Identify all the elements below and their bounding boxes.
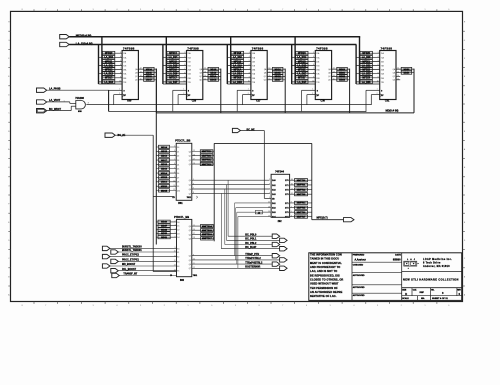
svg-text:4: 4 bbox=[313, 56, 314, 58]
svg-text:8: 8 bbox=[259, 305, 260, 307]
svg-text:1: 1 bbox=[248, 89, 249, 91]
svg-text:74F398: 74F398 bbox=[252, 46, 264, 50]
svg-text:MMF7D14: MMF7D14 bbox=[202, 225, 213, 228]
svg-text:BC_PBL1: BC_PBL1 bbox=[245, 238, 257, 241]
svg-text:MD26: MD26 bbox=[161, 222, 168, 224]
svg-text:4: 4 bbox=[184, 56, 185, 58]
svg-text:TTRxPCTRL2: TTRxPCTRL2 bbox=[245, 257, 261, 260]
svg-text:MD1C: MD1C bbox=[275, 69, 282, 71]
svg-text:D6: D6 bbox=[177, 173, 179, 175]
svg-text:7: 7 bbox=[184, 68, 185, 70]
svg-text:74AS08: 74AS08 bbox=[75, 97, 84, 100]
svg-text:LA_D16: LA_D16 bbox=[169, 73, 178, 76]
svg-text:5: 5 bbox=[93, 9, 94, 11]
svg-text:8 Tech Drive: 8 Tech Drive bbox=[423, 262, 441, 265]
svg-text:74F244: 74F244 bbox=[275, 170, 284, 174]
svg-text:MMF7D10: MMF7D10 bbox=[202, 151, 213, 153]
svg-text:REF: REF bbox=[420, 292, 425, 294]
svg-text:14: 14 bbox=[397, 75, 399, 77]
svg-text:8: 8 bbox=[22, 9, 23, 11]
svg-text:MD51: MD51 bbox=[404, 72, 411, 74]
svg-text:292: 292 bbox=[278, 220, 283, 223]
svg-text:4: 4 bbox=[120, 56, 121, 58]
svg-text:E2: E2 bbox=[177, 257, 179, 259]
svg-text:6: 6 bbox=[306, 305, 307, 307]
svg-text:MFD1E: MFD1E bbox=[298, 69, 306, 71]
svg-text:7: 7 bbox=[378, 68, 379, 70]
svg-text:1: 1 bbox=[188, 9, 189, 11]
svg-text:D4: D4 bbox=[177, 237, 179, 239]
svg-text:2: 2 bbox=[401, 9, 402, 11]
svg-text:MMF7D4: MMF7D4 bbox=[297, 202, 306, 205]
svg-text:AND PROPRIETARY TO: AND PROPRIETARY TO bbox=[310, 265, 340, 269]
svg-text:6: 6 bbox=[69, 305, 70, 307]
svg-text:4: 4 bbox=[269, 184, 270, 186]
svg-text:D1: D1 bbox=[177, 151, 179, 153]
svg-text:MD19: MD19 bbox=[161, 169, 168, 171]
svg-text:MD15: MD15 bbox=[146, 72, 153, 74]
svg-text:16: 16 bbox=[193, 229, 195, 231]
svg-text:14: 14 bbox=[333, 75, 335, 77]
svg-text:5: 5 bbox=[249, 60, 250, 62]
svg-text:10: 10 bbox=[173, 181, 175, 183]
svg-text:MMF7D16: MMF7D16 bbox=[202, 234, 213, 236]
svg-text:3: 3 bbox=[88, 102, 89, 104]
svg-text:7: 7 bbox=[282, 305, 283, 307]
svg-text:Q0: Q0 bbox=[189, 226, 191, 228]
svg-text:10: 10 bbox=[184, 81, 186, 83]
svg-text:BURSTL_TADD01: BURSTL_TADD01 bbox=[122, 249, 142, 252]
svg-text:5: 5 bbox=[174, 159, 175, 161]
svg-text:MFD1A: MFD1A bbox=[233, 68, 241, 71]
svg-text:4: 4 bbox=[174, 154, 175, 156]
svg-text:E3: E3 bbox=[177, 261, 179, 263]
svg-text:11: 11 bbox=[193, 263, 195, 265]
svg-text:BC_2E: BC_2E bbox=[118, 134, 126, 137]
svg-text:8: 8 bbox=[184, 72, 185, 74]
svg-text:9: 9 bbox=[193, 254, 194, 256]
svg-text:4: 4 bbox=[378, 56, 379, 58]
svg-text:5: 5 bbox=[193, 179, 194, 181]
svg-text:APPROVED: APPROVED bbox=[353, 286, 365, 289]
svg-text:13: 13 bbox=[204, 71, 206, 73]
svg-text:2: 2 bbox=[174, 146, 175, 148]
svg-text:5: 5 bbox=[93, 305, 94, 307]
svg-text:8: 8 bbox=[120, 72, 121, 74]
svg-text:10: 10 bbox=[193, 259, 195, 261]
svg-text:D4: D4 bbox=[177, 164, 179, 166]
svg-text:BC_BL0P: BC_BL0P bbox=[245, 246, 256, 249]
svg-text:12: 12 bbox=[173, 189, 175, 191]
svg-text:4: 4 bbox=[353, 9, 354, 11]
svg-text:3: 3 bbox=[184, 52, 185, 54]
svg-text:BC_PBL2: BC_PBL2 bbox=[245, 242, 257, 245]
svg-text:MD19: MD19 bbox=[210, 72, 217, 74]
svg-text:3: 3 bbox=[249, 52, 250, 54]
svg-text:0: 0 bbox=[448, 9, 449, 11]
svg-text:MD1E: MD1E bbox=[161, 190, 168, 192]
svg-text:NEW STLI HARDWARE COLLECTION: NEW STLI HARDWARE COLLECTION bbox=[403, 278, 459, 282]
svg-text:LA_D19: LA_D19 bbox=[233, 64, 242, 67]
svg-text:N/A: N/A bbox=[421, 297, 425, 300]
svg-text:Q7: Q7 bbox=[189, 268, 191, 270]
svg-text:Q7: Q7 bbox=[189, 193, 191, 195]
svg-text:12: 12 bbox=[397, 68, 399, 70]
svg-text:MFD19: MFD19 bbox=[234, 61, 242, 63]
svg-text:Q6: Q6 bbox=[189, 264, 191, 266]
svg-text:MENT IS CONFIDENTIAL: MENT IS CONFIDENTIAL bbox=[310, 261, 342, 265]
svg-text:18: 18 bbox=[193, 163, 195, 165]
svg-text:7: 7 bbox=[45, 305, 46, 307]
svg-text:11: 11 bbox=[174, 185, 176, 187]
svg-text:LDAP Medicine Inc.: LDAP Medicine Inc. bbox=[423, 258, 452, 261]
svg-text:MFD22: MFD22 bbox=[362, 69, 370, 71]
svg-text:5: 5 bbox=[378, 60, 379, 62]
svg-text:MFD1F: MFD1F bbox=[298, 78, 306, 80]
svg-text:2: 2 bbox=[183, 93, 184, 95]
svg-text:3: 3 bbox=[378, 52, 379, 54]
svg-text:LA_D13: LA_D13 bbox=[104, 81, 113, 84]
svg-text:6: 6 bbox=[313, 64, 314, 66]
svg-text:TRANSF_NT: TRANSF_NT bbox=[123, 273, 137, 276]
svg-text:8: 8 bbox=[259, 9, 260, 11]
svg-text:14: 14 bbox=[174, 269, 176, 271]
svg-text:MFD23: MFD23 bbox=[362, 78, 370, 80]
svg-text:9: 9 bbox=[249, 76, 250, 78]
svg-text:LA_D1B: LA_D1B bbox=[233, 81, 242, 84]
svg-text:16: 16 bbox=[193, 154, 195, 156]
svg-text:74F398: 74F398 bbox=[187, 46, 199, 50]
svg-text:2: 2 bbox=[164, 9, 165, 11]
svg-text:3: 3 bbox=[140, 305, 141, 307]
svg-text:MMF7D17: MMF7D17 bbox=[202, 238, 213, 240]
svg-text:6: 6 bbox=[378, 64, 379, 66]
svg-text:7: 7 bbox=[193, 188, 194, 190]
svg-text:Q1: Q1 bbox=[189, 230, 191, 232]
svg-text:MD18: MD18 bbox=[161, 164, 168, 166]
svg-text:10: 10 bbox=[119, 81, 121, 83]
svg-text:15: 15 bbox=[204, 78, 206, 80]
svg-text:MMF7D13: MMF7D13 bbox=[202, 164, 213, 166]
svg-text:LA_D12: LA_D12 bbox=[104, 73, 113, 76]
svg-text:MD1B: MD1B bbox=[210, 80, 217, 82]
svg-text:D1: D1 bbox=[177, 226, 179, 228]
svg-text:3: 3 bbox=[175, 224, 176, 226]
svg-text:TTRxP_PTR: TTRxP_PTR bbox=[245, 253, 259, 256]
svg-text:LA_D23: LA_D23 bbox=[362, 81, 371, 84]
svg-text:13: 13 bbox=[140, 71, 142, 73]
svg-text:MFD(0:7): MFD(0:7) bbox=[317, 215, 328, 219]
svg-text:8/30/90: 8/30/90 bbox=[393, 260, 401, 262]
svg-text:L A J: L A J bbox=[407, 258, 416, 261]
svg-text:6: 6 bbox=[184, 64, 185, 66]
svg-text:SCALE: SCALE bbox=[402, 297, 409, 300]
svg-text:MFD15: MFD15 bbox=[169, 61, 177, 63]
svg-text:10: 10 bbox=[248, 81, 250, 83]
svg-text:12: 12 bbox=[204, 68, 206, 70]
svg-text:MFD16: MFD16 bbox=[169, 69, 177, 71]
svg-text:4: 4 bbox=[116, 305, 117, 307]
svg-text:TTRxPHSTRL2: TTRxPHSTRL2 bbox=[245, 261, 263, 264]
svg-text:5: 5 bbox=[313, 60, 314, 62]
svg-text:LA_D14: LA_D14 bbox=[169, 56, 178, 59]
svg-text:7B11: 7B11 bbox=[187, 197, 191, 199]
svg-text:Q3: Q3 bbox=[189, 164, 191, 166]
svg-text:TAINED IN THIS DOCU: TAINED IN THIS DOCU bbox=[310, 257, 339, 261]
svg-text:MMF7D11: MMF7D11 bbox=[202, 155, 212, 157]
svg-text:2: 2 bbox=[269, 179, 270, 181]
svg-text:12: 12 bbox=[193, 267, 195, 269]
svg-text:Q2: Q2 bbox=[189, 234, 191, 236]
svg-text:SENTATIVE OF LAC.: SENTATIVE OF LAC. bbox=[310, 294, 337, 298]
svg-text:Q5: Q5 bbox=[189, 185, 191, 187]
svg-text:MD28: MD28 bbox=[161, 229, 168, 231]
svg-text:LA_D1C: LA_D1C bbox=[297, 56, 306, 59]
svg-text:THE INFORMATION CON: THE INFORMATION CON bbox=[310, 252, 342, 256]
svg-text:MD1A: MD1A bbox=[210, 75, 217, 78]
svg-text:15: 15 bbox=[193, 225, 195, 227]
svg-text:15: 15 bbox=[333, 78, 335, 80]
svg-text:6: 6 bbox=[120, 64, 121, 66]
svg-text:CLOSED TO OTHERS, OR: CLOSED TO OTHERS, OR bbox=[310, 277, 343, 281]
svg-text:5: 5 bbox=[330, 9, 331, 11]
svg-text:74F398: 74F398 bbox=[316, 46, 328, 50]
svg-text:12: 12 bbox=[269, 68, 271, 70]
svg-text:E5: E5 bbox=[177, 271, 179, 273]
svg-text:Q4: Q4 bbox=[189, 180, 191, 182]
svg-text:MFD1D: MFD1D bbox=[298, 61, 306, 63]
svg-text:MD14: MD14 bbox=[146, 68, 153, 71]
svg-text:MD1B: MD1B bbox=[161, 177, 168, 179]
svg-text:C26: C26 bbox=[192, 100, 197, 103]
svg-text:8: 8 bbox=[174, 172, 175, 174]
svg-text:0: 0 bbox=[211, 305, 212, 307]
svg-text:9: 9 bbox=[120, 76, 121, 78]
svg-text:MFD21: MFD21 bbox=[362, 61, 370, 63]
svg-text:D2: D2 bbox=[177, 230, 179, 232]
svg-text:MFD10: MFD10 bbox=[105, 53, 113, 55]
svg-text:15: 15 bbox=[193, 150, 195, 152]
svg-text:D5: D5 bbox=[177, 169, 179, 171]
svg-text:13: 13 bbox=[397, 71, 399, 73]
svg-text:MMF7D2: MMF7D2 bbox=[297, 189, 306, 191]
svg-text:8: 8 bbox=[22, 305, 23, 307]
svg-text:NO.: NO. bbox=[431, 289, 435, 291]
svg-text:MMF7D5: MMF7D5 bbox=[297, 208, 306, 210]
svg-text:ROSTERN0R: ROSTERN0R bbox=[245, 266, 260, 269]
svg-text:MFD13: MFD13 bbox=[105, 78, 113, 80]
svg-text:Q6: Q6 bbox=[189, 189, 191, 191]
svg-text:MFD1C: MFD1C bbox=[298, 53, 306, 55]
svg-text:2: 2 bbox=[377, 93, 378, 95]
svg-text:MD1D: MD1D bbox=[161, 186, 168, 188]
svg-text:MD31: MD31 bbox=[161, 237, 168, 239]
svg-text:2: 2 bbox=[119, 93, 120, 95]
svg-text:1: 1 bbox=[119, 89, 120, 91]
svg-text:7: 7 bbox=[120, 68, 121, 70]
svg-text:2: 2 bbox=[164, 305, 165, 307]
svg-text:2: 2 bbox=[312, 93, 313, 95]
svg-text:6: 6 bbox=[306, 9, 307, 11]
svg-text:MD1C: MD1C bbox=[161, 182, 168, 184]
svg-text:74F398: 74F398 bbox=[123, 46, 135, 50]
svg-text:4: 4 bbox=[249, 56, 250, 58]
svg-text:3: 3 bbox=[120, 52, 121, 54]
svg-text:MD17: MD17 bbox=[146, 80, 153, 82]
svg-text:11: 11 bbox=[174, 255, 176, 257]
svg-text:10: 10 bbox=[174, 251, 176, 253]
svg-text:6: 6 bbox=[249, 64, 250, 66]
svg-text:MMF7D3: MMF7D3 bbox=[297, 194, 306, 196]
svg-text:LA_D22: LA_D22 bbox=[362, 73, 371, 76]
svg-text:MFD17: MFD17 bbox=[169, 78, 177, 80]
svg-text:8: 8 bbox=[378, 72, 379, 74]
svg-text:13: 13 bbox=[333, 71, 335, 73]
svg-text:MD18: MD18 bbox=[210, 69, 217, 71]
svg-text:E1: E1 bbox=[177, 252, 179, 254]
svg-text:LA_D17: LA_D17 bbox=[169, 81, 178, 84]
svg-text:0: 0 bbox=[211, 9, 212, 11]
svg-text:7: 7 bbox=[313, 68, 314, 70]
svg-text:BURSTL_TADD03: BURSTL_TADD03 bbox=[122, 246, 142, 249]
svg-text:7: 7 bbox=[45, 9, 46, 11]
svg-text:BC_PBL0: BC_PBL0 bbox=[245, 234, 257, 237]
svg-text:Andover, MA 01810: Andover, MA 01810 bbox=[423, 265, 450, 268]
svg-text:8: 8 bbox=[313, 72, 314, 74]
svg-text:14: 14 bbox=[140, 75, 142, 77]
svg-text:MFD1B: MFD1B bbox=[233, 78, 241, 80]
svg-text:MMF7D7: MMF7D7 bbox=[297, 216, 306, 218]
svg-text:MD16: MD16 bbox=[161, 155, 168, 157]
svg-text:5: 5 bbox=[330, 305, 331, 307]
svg-text:MD30: MD30 bbox=[161, 233, 168, 235]
svg-text:LA_D18: LA_D18 bbox=[233, 56, 242, 59]
svg-text:18: 18 bbox=[193, 237, 195, 239]
svg-text:C27: C27 bbox=[256, 100, 261, 103]
svg-text:15: 15 bbox=[397, 78, 399, 80]
svg-text:Q0: Q0 bbox=[189, 151, 191, 153]
svg-text:P7DC7L_BB: P7DC7L_BB bbox=[175, 139, 190, 143]
svg-text:APPROVED: APPROVED bbox=[353, 294, 365, 297]
svg-text:LA_D20: LA_D20 bbox=[362, 56, 371, 59]
svg-text:2: 2 bbox=[401, 305, 402, 307]
svg-text:9: 9 bbox=[235, 305, 236, 307]
svg-text:3: 3 bbox=[174, 150, 175, 152]
svg-text:MMF7D12: MMF7D12 bbox=[202, 160, 213, 162]
svg-text:LA_D1F: LA_D1F bbox=[297, 81, 306, 84]
svg-text:14: 14 bbox=[269, 75, 271, 77]
svg-text:4: 4 bbox=[116, 9, 117, 11]
svg-text:MFD11: MFD11 bbox=[105, 61, 113, 63]
svg-text:8: 8 bbox=[249, 72, 250, 74]
svg-text:Q3: Q3 bbox=[189, 238, 191, 240]
svg-text:9: 9 bbox=[175, 247, 176, 249]
svg-text:1: 1 bbox=[312, 89, 313, 91]
svg-text:1: 1 bbox=[425, 9, 426, 11]
svg-text:MD23: MD23 bbox=[339, 80, 346, 82]
svg-text:17: 17 bbox=[193, 159, 195, 161]
svg-text:8: 8 bbox=[269, 193, 270, 195]
svg-text:MD15: MD15 bbox=[161, 151, 168, 153]
svg-text:E0: E0 bbox=[177, 248, 179, 250]
svg-text:LAC, AND IS NOT TO: LAC, AND IS NOT TO bbox=[310, 269, 337, 273]
svg-text:12: 12 bbox=[333, 68, 335, 70]
svg-text:Q5: Q5 bbox=[189, 260, 191, 262]
svg-text:10: 10 bbox=[312, 81, 314, 83]
svg-text:10: 10 bbox=[377, 81, 379, 83]
svg-text:B81: B81 bbox=[178, 202, 183, 205]
svg-text:6: 6 bbox=[175, 236, 176, 238]
svg-text:PAL_BOOST: PAL_BOOST bbox=[122, 268, 137, 271]
svg-text:9: 9 bbox=[184, 76, 185, 78]
svg-text:Q4: Q4 bbox=[189, 256, 191, 258]
svg-text:9: 9 bbox=[235, 9, 236, 11]
svg-text:3: 3 bbox=[377, 305, 378, 307]
svg-text:MFD14: MFD14 bbox=[169, 52, 177, 55]
svg-text:830: 830 bbox=[127, 100, 132, 103]
svg-text:MMF7D6: MMF7D6 bbox=[297, 212, 306, 214]
svg-text:1: 1 bbox=[269, 197, 270, 199]
svg-text:MD21: MD21 bbox=[339, 72, 346, 74]
svg-text:LA_D15: LA_D15 bbox=[169, 64, 178, 67]
svg-text:6: 6 bbox=[174, 163, 175, 165]
svg-text:D2: D2 bbox=[177, 156, 179, 158]
svg-text:LA_D11: LA_D11 bbox=[104, 64, 113, 67]
svg-text:TEN PERMISSION OF: TEN PERMISSION OF bbox=[310, 286, 338, 290]
svg-text:4: 4 bbox=[175, 228, 176, 230]
svg-text:D9: D9 bbox=[177, 186, 179, 188]
svg-text:5: 5 bbox=[184, 60, 185, 62]
svg-text:PREPARED: PREPARED bbox=[353, 254, 365, 257]
svg-text:MD50: MD50 bbox=[404, 69, 411, 71]
svg-text:Q1: Q1 bbox=[189, 156, 191, 158]
svg-text:6: 6 bbox=[269, 188, 270, 190]
svg-text:15: 15 bbox=[269, 78, 271, 80]
svg-text:D: D bbox=[405, 292, 407, 296]
svg-text:7B11: 7B11 bbox=[193, 275, 197, 277]
svg-text:MD17: MD17 bbox=[161, 160, 168, 162]
svg-text:14: 14 bbox=[204, 75, 206, 77]
svg-text:D8: D8 bbox=[177, 182, 179, 184]
svg-text:0: 0 bbox=[448, 305, 449, 307]
svg-text:7: 7 bbox=[174, 167, 175, 169]
svg-text:6: 6 bbox=[193, 183, 194, 185]
svg-text:2: 2 bbox=[248, 93, 249, 95]
svg-text:8: 8 bbox=[193, 192, 194, 194]
svg-text:LA_D21: LA_D21 bbox=[362, 64, 371, 67]
svg-text:9: 9 bbox=[378, 76, 379, 78]
svg-text:D3: D3 bbox=[177, 160, 179, 162]
svg-text:C31: C31 bbox=[385, 100, 390, 103]
svg-text:4: 4 bbox=[353, 305, 354, 307]
svg-text:BE REPRODUCED, DIS: BE REPRODUCED, DIS bbox=[310, 273, 340, 277]
svg-text:LA_D1D: LA_D1D bbox=[297, 64, 306, 67]
svg-text:CHECKED: CHECKED bbox=[353, 264, 364, 266]
svg-text:7: 7 bbox=[249, 68, 250, 70]
svg-text:SHEET 4 OF 31: SHEET 4 OF 31 bbox=[432, 297, 449, 300]
svg-text:D0: D0 bbox=[177, 222, 179, 224]
svg-text:LA_D1A: LA_D1A bbox=[233, 73, 242, 76]
svg-text:MD1A: MD1A bbox=[161, 172, 168, 175]
svg-text:3: 3 bbox=[313, 52, 314, 54]
svg-text:9: 9 bbox=[313, 76, 314, 78]
svg-text:3: 3 bbox=[377, 9, 378, 11]
svg-text:2: 2 bbox=[175, 221, 176, 223]
svg-text:1: 1 bbox=[377, 89, 378, 91]
svg-text:5: 5 bbox=[175, 232, 176, 234]
svg-text:AN AUTHORIZED REPRE: AN AUTHORIZED REPRE bbox=[310, 290, 343, 294]
svg-text:1: 1 bbox=[183, 89, 184, 91]
